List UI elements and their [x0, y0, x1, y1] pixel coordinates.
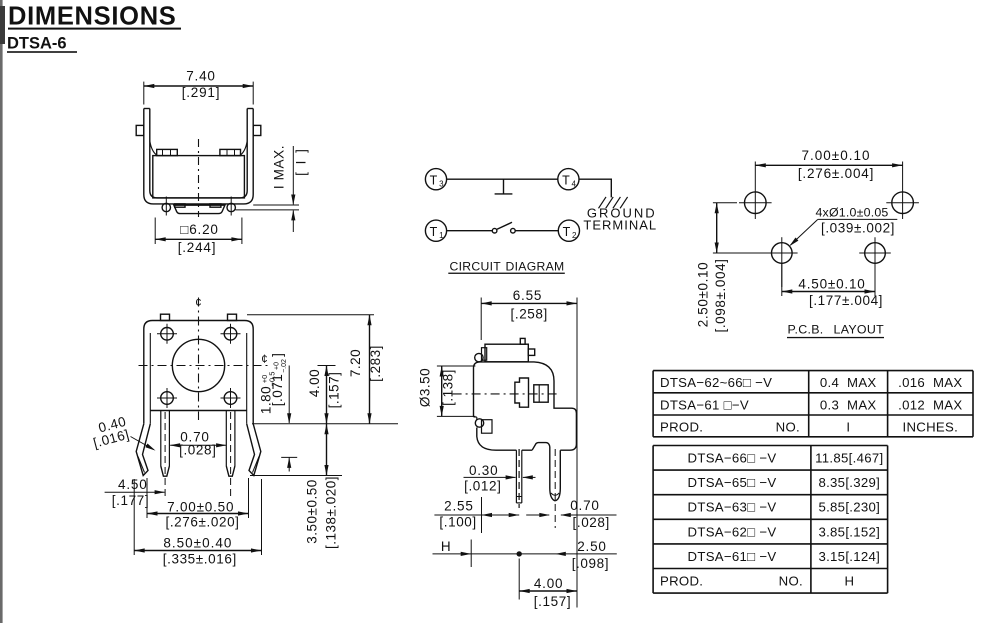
svg-text:DTSA−62~66□ −V: DTSA−62~66□ −V	[660, 375, 772, 390]
view B dim 4.00	[326, 366, 328, 424]
table 1 pretravel	[653, 370, 973, 372]
view B outer leg left	[136, 424, 150, 476]
view B dim 3.50	[326, 424, 328, 476]
view A body	[153, 156, 245, 198]
svg-text:DIMENSIONS: DIMENSIONS	[8, 3, 177, 31]
view A pin left	[162, 203, 170, 211]
svg-text:[.138]: [.138]	[440, 369, 455, 406]
wire T1 to contact	[447, 230, 493, 232]
view B dim 7.20	[369, 315, 371, 424]
svg-text:8.35[.329]: 8.35[.329]	[818, 475, 880, 490]
svg-text:6.55: 6.55	[513, 288, 542, 303]
view B top tab left	[161, 314, 170, 320]
svg-text:□6.20: □6.20	[180, 222, 218, 237]
PCB hole leader	[791, 219, 818, 245]
wire contact to T2	[515, 230, 558, 232]
svg-text:[.258]: [.258]	[511, 306, 548, 321]
PCB dim 7.00	[755, 164, 902, 166]
view C clip top	[475, 353, 483, 361]
terminal T4	[558, 169, 579, 190]
svg-text:1: 1	[439, 231, 444, 240]
svg-text:T: T	[563, 225, 571, 239]
view B dim 1.80	[288, 366, 290, 424]
svg-text:I: I	[846, 419, 850, 434]
svg-text:CIRCUIT: CIRCUIT	[450, 259, 502, 273]
view B inner terminal right	[225, 411, 227, 467]
svg-text:¢: ¢	[261, 354, 267, 366]
view B top reference line	[247, 314, 374, 316]
svg-text:INCHES.: INCHES.	[903, 419, 959, 434]
svg-text:7.00±0.50: 7.00±0.50	[167, 499, 234, 514]
ground symbol	[599, 197, 607, 208]
view B frame inner edges	[149, 333, 151, 411]
svg-text:0.70: 0.70	[570, 498, 599, 513]
PCB hole top-left	[745, 192, 767, 214]
svg-text:[.276±.004]: [.276±.004]	[798, 166, 874, 181]
svg-text:DTSA−61 □−V: DTSA−61 □−V	[660, 397, 749, 412]
svg-text:[.157]: [.157]	[534, 594, 571, 609]
view A button face reference line	[235, 209, 299, 211]
svg-text:[.012]: [.012]	[464, 479, 501, 494]
svg-text:3.50±0.50: 3.50±0.50	[305, 479, 320, 543]
svg-text:+0: +0	[274, 362, 281, 370]
view B centerline tick right	[318, 365, 336, 367]
svg-text:7.40: 7.40	[186, 69, 215, 84]
svg-text:[.244]: [.244]	[178, 240, 217, 255]
view B outer frame contour	[144, 321, 253, 424]
svg-text:0.4 MAX: 0.4 MAX	[820, 375, 877, 390]
view C right terminal	[550, 447, 555, 501]
svg-text:T: T	[430, 173, 438, 187]
svg-text:8.50±0.40: 8.50±0.40	[163, 535, 232, 550]
view C dim H line	[433, 553, 617, 555]
wire T4 to ground	[579, 179, 611, 197]
view C dim 6.55	[480, 298, 482, 341]
svg-text:NO.: NO.	[776, 419, 800, 434]
svg-text:4.50±0.10: 4.50±0.10	[798, 276, 865, 291]
svg-text:2.55: 2.55	[444, 499, 473, 514]
svg-text:4xØ1.0±0.05: 4xØ1.0±0.05	[815, 206, 888, 220]
view C left terminal	[515, 450, 517, 503]
PCB hole bottom-right	[865, 243, 886, 264]
view C dim diameter 3.50	[437, 365, 476, 367]
svg-text:4.00: 4.00	[307, 369, 322, 397]
view B corner hole TL	[161, 328, 174, 341]
svg-text:[.335±.016]: [.335±.016]	[163, 551, 237, 566]
PCB hole top-right	[892, 192, 914, 214]
svg-text:DIAGRAM: DIAGRAM	[506, 259, 565, 273]
view A body top ridge left	[157, 149, 178, 155]
svg-text:DTSA−66□ −V: DTSA−66□ −V	[688, 451, 777, 466]
view C clip bottom	[475, 419, 483, 427]
svg-text:T: T	[562, 173, 570, 187]
svg-text:[.028]: [.028]	[573, 515, 610, 530]
svg-text:3.85[.152]: 3.85[.152]	[818, 524, 880, 539]
svg-text:DTSA−65□ −V: DTSA−65□ −V	[688, 475, 777, 490]
view A base tabs	[175, 204, 185, 207]
svg-text:.016 MAX: .016 MAX	[898, 375, 962, 390]
view B leg tip reference line	[250, 475, 342, 477]
svg-text:NO.: NO.	[779, 574, 803, 589]
svg-text:7.20: 7.20	[348, 349, 363, 377]
view B dim 7.00	[146, 478, 148, 518]
terminal T3	[425, 169, 446, 190]
view B outer leg right	[247, 424, 261, 476]
svg-text:PROD.: PROD.	[660, 419, 703, 434]
view B body bottom edge	[150, 410, 246, 412]
svg-text:[.291]: [.291]	[182, 85, 221, 100]
wire T3-T4	[447, 178, 558, 180]
PCB hole bottom-left	[772, 243, 793, 264]
svg-text:[.028]: [.028]	[179, 442, 216, 457]
view A center dashed line	[198, 139, 200, 217]
view B corner hole BL	[161, 392, 174, 405]
view B vertical centerline	[198, 298, 200, 421]
view B inner terminal left	[160, 411, 162, 467]
svg-text:−.02: −.02	[281, 359, 288, 373]
svg-text:4.00: 4.00	[534, 576, 563, 591]
svg-text:[.138±.020]: [.138±.020]	[323, 476, 338, 549]
svg-text:I MAX.: I MAX.	[272, 145, 287, 189]
svg-text:H: H	[441, 539, 451, 554]
view C plunger	[515, 378, 529, 407]
svg-text:DTSA−62□ −V: DTSA−62□ −V	[688, 524, 777, 539]
svg-text:2.50: 2.50	[577, 539, 606, 554]
terminal T1	[425, 220, 446, 241]
view C dim 4.00	[518, 559, 520, 600]
svg-text:2.50±0.10: 2.50±0.10	[696, 262, 711, 327]
svg-text:5.85[.230]: 5.85[.230]	[818, 500, 880, 515]
actuator mark	[503, 179, 505, 194]
svg-text:P.C.B.: P.C.B.	[788, 323, 824, 337]
view A dim 7.40	[144, 85, 253, 87]
view A frame left arm	[144, 109, 253, 204]
view C top tab	[520, 338, 525, 344]
PCB dim 4.50	[781, 263, 783, 296]
svg-text:[.157]: [.157]	[326, 372, 341, 409]
view A button	[174, 205, 225, 213]
terminal T2	[558, 220, 579, 241]
svg-text:[.100]: [.100]	[439, 514, 476, 529]
svg-text:DTSA-6: DTSA-6	[7, 35, 67, 53]
view A pin right	[227, 203, 235, 211]
view A frame right tab	[253, 125, 261, 135]
view C bracket side tab	[528, 349, 534, 355]
svg-text:H: H	[845, 574, 855, 589]
svg-text:Ø3.50: Ø3.50	[418, 368, 433, 407]
view A dim 7.40 extension lines	[143, 82, 145, 105]
view A dim 6.20 extension lines	[154, 218, 156, 245]
view C body edge extension	[481, 497, 483, 533]
svg-text:[.177]: [.177]	[112, 493, 149, 508]
view B corner hole TR	[224, 328, 237, 341]
view A frame inner edge	[150, 109, 247, 198]
view A body top ridge right	[220, 149, 241, 155]
view A frame inner fillets	[150, 141, 158, 156]
svg-text:LAYOUT: LAYOUT	[834, 323, 885, 337]
PCB dim 2.50	[713, 202, 737, 204]
svg-text:[.039±.002]: [.039±.002]	[821, 220, 895, 235]
svg-text:0.30: 0.30	[469, 463, 498, 478]
svg-text:7.00±0.10: 7.00±0.10	[802, 148, 871, 163]
svg-text:[.276±.020]: [.276±.020]	[165, 515, 239, 530]
svg-text:¢: ¢	[195, 298, 201, 310]
svg-text:[.283]: [.283]	[368, 345, 383, 382]
svg-text:4.50: 4.50	[118, 477, 147, 492]
svg-text:3: 3	[439, 179, 444, 188]
view C horizontal centerline	[453, 393, 561, 395]
svg-text:11.85[.467]: 11.85[.467]	[815, 451, 883, 466]
svg-text:3.15[.124]: 3.15[.124]	[818, 549, 880, 564]
svg-text:[.071: [.071	[270, 374, 285, 407]
svg-text:[.177±.004]: [.177±.004]	[809, 293, 883, 308]
svg-text:]: ]	[270, 353, 285, 357]
svg-text:.012 MAX: .012 MAX	[898, 397, 962, 412]
svg-text:T: T	[430, 225, 438, 239]
svg-text:[ I ]: [ I ]	[294, 147, 309, 176]
view A frame arm top caps	[144, 108, 150, 110]
switch contact	[492, 228, 497, 233]
view A seating plane reference line	[253, 204, 299, 206]
view B shoulder reference line	[252, 423, 398, 425]
view B dim 8.50	[133, 479, 135, 555]
view A frame left tab	[136, 125, 144, 135]
svg-text:2: 2	[572, 231, 577, 240]
view B horizontal centerline	[139, 365, 269, 367]
svg-text:4: 4	[571, 179, 576, 188]
svg-text:[.098±.004]: [.098±.004]	[713, 258, 728, 332]
svg-text:PROD.: PROD.	[660, 574, 703, 589]
view C body outline	[474, 362, 577, 450]
view A dim I MAX leader	[292, 146, 294, 204]
view B center button circle	[172, 339, 224, 391]
view C bracket	[485, 344, 528, 362]
scan left edge artifact	[0, 0, 3, 623]
table 2 height H	[653, 445, 888, 447]
svg-text:TERMINAL: TERMINAL	[583, 217, 657, 232]
svg-text:0.3 MAX: 0.3 MAX	[820, 397, 877, 412]
view B top tab right	[228, 314, 237, 320]
view A dim square 6.20	[155, 238, 242, 240]
svg-text:[.098]: [.098]	[572, 556, 609, 571]
svg-text:DTSA−61□ −V: DTSA−61□ −V	[688, 549, 777, 564]
view B corner hole BR	[224, 392, 237, 405]
svg-text:DTSA−63□ −V: DTSA−63□ −V	[688, 500, 777, 515]
